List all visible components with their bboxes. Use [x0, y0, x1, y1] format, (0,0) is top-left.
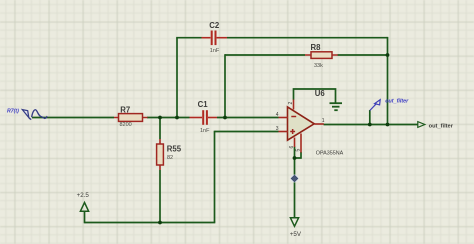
svg-text:1: 1 [322, 118, 325, 124]
wire: opamp output y=124.5 [324, 124, 418, 126]
capacitor C2 [202, 37, 211, 39]
wire: R8 left vertical x=225 [224, 54, 226, 117]
op-amp +/- marks [291, 116, 296, 118]
wire: +5V vertical x=294.5 [294, 158, 296, 219]
wire: R8 right rail y=55 [338, 54, 388, 56]
svg-text:R8: R8 [311, 43, 322, 52]
svg-text:C1: C1 [198, 100, 209, 109]
svg-text:C2: C2 [209, 21, 220, 30]
svg-text:1nF: 1nF [200, 128, 210, 134]
wire: R8 left rail y=55 [225, 54, 305, 56]
svg-text:R55: R55 [167, 145, 182, 154]
resistor R8 [305, 54, 338, 56]
ground [330, 103, 343, 110]
power +5V arrow [290, 218, 298, 227]
labels [120, 21, 325, 153]
svg-text:6: 6 [289, 146, 295, 149]
resistor R7 [114, 117, 148, 119]
svg-text:2: 2 [288, 102, 294, 105]
wire: input horizontal y=117.5 [32, 117, 114, 119]
svg-text:R7: R7 [120, 105, 130, 114]
terminal out_filter arrow [418, 122, 425, 128]
node diamond on +5V wire [291, 175, 299, 183]
wire: opamp top pin to ground [294, 89, 336, 103]
probe arrow (blue) [370, 103, 377, 110]
wire: right feedback vertical x=387.5 [387, 37, 389, 125]
power +2.5 arrow [80, 203, 88, 212]
svg-text:33k: 33k [314, 63, 323, 69]
wire: probe stub x=369.8 [369, 110, 371, 125]
wire: C2 left branch vertical x=177 [176, 38, 178, 118]
junction dots [158, 116, 162, 120]
wire: bottom rail y=222 [85, 222, 216, 224]
svg-text:5: 5 [295, 149, 301, 152]
wire: +2.5 arrow stem [84, 211, 86, 223]
op-amp pin stubs [279, 117, 289, 119]
input generator symbol [22, 110, 29, 118]
svg-text:+5V: +5V [290, 231, 302, 238]
svg-text:8200: 8200 [120, 122, 132, 128]
svg-text:4: 4 [276, 112, 279, 118]
wire: +2.5 vertical x=214.5 [214, 131, 216, 223]
svg-text:82: 82 [167, 155, 173, 161]
capacitor C1 [190, 117, 203, 119]
op-amp U6 [288, 107, 315, 140]
wire: R55 top vertical [159, 118, 161, 140]
svg-text:out_filter: out_filter [429, 123, 454, 129]
resistor R55 [159, 139, 161, 170]
wire: pin3 horizontal y=131.5 [215, 131, 279, 133]
svg-text:3: 3 [276, 126, 279, 132]
svg-text:out_filter: out_filter [385, 99, 409, 105]
svg-text:OPA355NA: OPA355NA [316, 151, 344, 157]
wire: R55 bottom vertical [159, 170, 161, 223]
svg-text:1nF: 1nF [210, 48, 220, 54]
svg-text:U6: U6 [315, 89, 326, 98]
wire: C1 right to opamp pin4 [217, 117, 279, 119]
wire: top rail C2 left [176, 37, 201, 39]
svg-text:+2.5: +2.5 [77, 192, 90, 199]
svg-text:R7(t): R7(t) [7, 109, 19, 115]
wire: opamp bottom pins join [294, 147, 302, 159]
wire: top rail C2 right [227, 37, 388, 39]
wire: R7 right to C1 [147, 117, 190, 119]
